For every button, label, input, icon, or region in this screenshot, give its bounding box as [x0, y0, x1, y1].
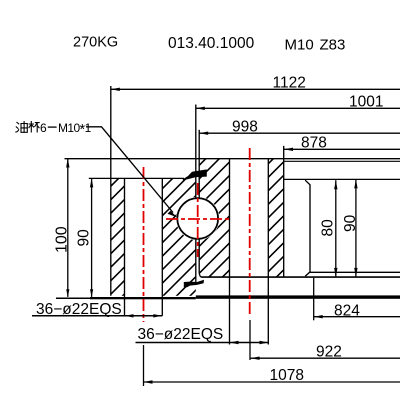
dimension 998 [199, 119, 400, 136]
CJK 油 (oil) simplified strokes [15, 121, 27, 132]
outer ring top surface line [89, 177, 184, 179]
svg-text:270KG: 270KG [73, 35, 118, 51]
svg-text:80: 80 [320, 219, 337, 237]
inner ring bolt hole left edge [229, 159, 231, 345]
raceway gap right edge upper [198, 130, 200, 198]
svg-text:998: 998 [232, 119, 258, 136]
raceway gap left edge lower [195, 239, 197, 283]
outer ring section left of bolt hole [111, 178, 125, 295]
top seal (black) [183, 169, 207, 180]
svg-text:922: 922 [316, 343, 342, 360]
svg-text:100: 100 [54, 226, 71, 253]
svg-text:M10: M10 [285, 36, 314, 53]
bottom seal (black) [184, 280, 204, 287]
label 36-ø22EQS inner [136, 326, 269, 344]
ball vertical centerline [197, 183, 199, 257]
svg-text:1001: 1001 [349, 94, 383, 111]
inner ring section left of bolt hole (ball cutout) [199, 159, 229, 277]
inner ring bore / gear left edge [283, 146, 285, 277]
dimension 878 [284, 135, 400, 152]
dimension 80 (right, rotated) [320, 180, 338, 277]
dimension 1122 [111, 75, 400, 92]
dimension 824 [314, 278, 400, 321]
bottom mounting face thick band [56, 298, 90, 300]
svg-text:824: 824 [334, 303, 360, 320]
dimension 1078 [144, 345, 400, 386]
ball clearance (white) [176, 197, 220, 241]
inner ring section right of bolt hole [268, 159, 283, 277]
outer bolt hole centerline [143, 167, 145, 322]
bore step vertical with chamfers [305, 180, 310, 276]
inner ring bolt hole right edge [267, 159, 269, 345]
outer ring OD edge [110, 86, 112, 296]
raceway gap left edge upper [195, 105, 197, 198]
outer ring bolt hole left edge [124, 178, 126, 315]
gear tooth top line [284, 160, 400, 162]
CJK 杯 (cup) simplified strokes [29, 121, 40, 133]
dimension 90 (left, rotated) [75, 178, 93, 297]
raceway gap right edge lower with fillet [199, 239, 202, 277]
dimension 90 (right, rotated) [342, 179, 359, 277]
svg-text:Z83: Z83 [320, 36, 346, 53]
svg-text:013.40.1000: 013.40.1000 [168, 35, 255, 52]
svg-text:90: 90 [75, 229, 92, 247]
svg-text:36−ø22EQS: 36−ø22EQS [138, 326, 224, 343]
dimension 922 [250, 320, 400, 360]
inner bolt hole centerline [249, 148, 251, 317]
inner ring top surface line [65, 158, 400, 160]
outer ring bolt hole right edge [161, 178, 163, 315]
svg-text:1122: 1122 [273, 75, 306, 92]
svg-text:878: 878 [301, 135, 327, 152]
ball [177, 198, 218, 239]
svg-text:1078: 1078 [270, 367, 304, 384]
svg-text:6: 6 [40, 121, 47, 135]
bore recess bottom line [310, 271, 400, 273]
dimension 1001 [196, 94, 400, 111]
inner ring bottom surface line [202, 276, 400, 278]
ball horizontal centerline [166, 218, 232, 220]
grease point leader 油杯6-M10*1 [40, 121, 177, 217]
gear tooth bottom line [284, 178, 400, 180]
label 36-ø22EQS outer [32, 301, 162, 318]
outer ring section right of bolt hole (ball cutout) [162, 178, 196, 295]
dimension 100 (left, rotated) [54, 159, 71, 298]
svg-text:90: 90 [342, 214, 359, 232]
